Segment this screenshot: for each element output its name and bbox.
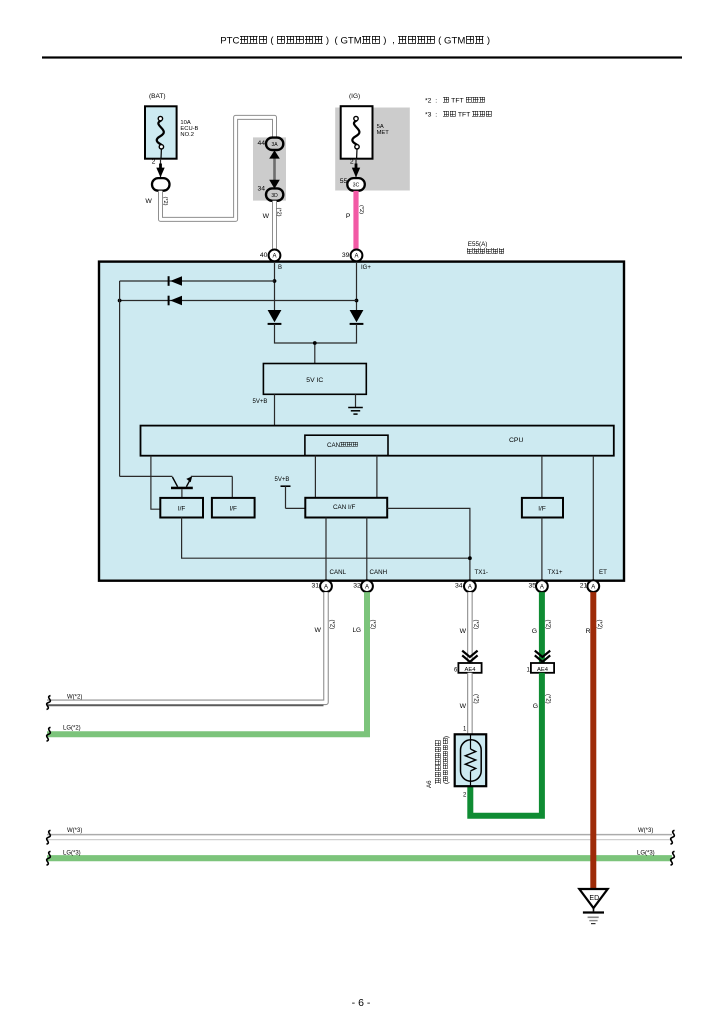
junction dot (355, 299, 359, 303)
wire label P (346, 213, 351, 220)
wire CPU to I/F3 (541, 456, 543, 498)
connector oval 3A (266, 138, 283, 150)
wire I/F3 to pin 35 (541, 518, 543, 581)
svg-text:44: 44 (257, 140, 265, 147)
wire label W(*3) right (638, 828, 653, 834)
svg-text:W: W (314, 627, 321, 634)
connector oval 3C (347, 178, 365, 191)
wire LG pin32 to LG(*2) (light green) (47, 592, 367, 734)
connector chevron AE4 pin1 (535, 651, 550, 662)
sensor designator A6 (427, 780, 433, 788)
wire note (*2) (472, 694, 478, 704)
svg-text:E55(A): E55(A) (468, 241, 488, 248)
svg-text:32: 32 (353, 583, 361, 590)
pin 21 (A) (580, 580, 599, 592)
svg-text:LG(*3): LG(*3) (63, 851, 81, 857)
CAN controller label (327, 442, 358, 449)
svg-text:40: 40 (260, 252, 268, 259)
connector oval below F1 (152, 178, 170, 191)
wire break squiggle LG(*3) right (671, 851, 675, 865)
svg-text:B: B (278, 265, 282, 271)
I/F box 2 (212, 498, 255, 518)
fuse label (BAT) (149, 94, 166, 101)
node CANL label (330, 569, 347, 576)
svg-text:(*2): (*2) (472, 620, 478, 630)
svg-text:5V+B: 5V+B (275, 477, 290, 483)
connector oval 3D (266, 188, 283, 200)
junction dot (273, 279, 277, 283)
sensor name vertical text (435, 735, 450, 783)
svg-text:(*2): (*2) (358, 205, 364, 214)
wire TX1- from CAN I/F (387, 508, 470, 580)
svg-text:1: 1 (526, 667, 530, 673)
junction dot left (118, 299, 122, 303)
diode D3 (268, 310, 282, 324)
left rail wire (119, 281, 121, 476)
svg-text:(*2): (*2) (276, 208, 282, 217)
wire pin40 down (274, 263, 276, 310)
wire note (*2) (276, 208, 282, 217)
wire fuse F1 to connector (160, 159, 162, 178)
svg-text:LG: LG (352, 627, 361, 634)
junction connector block 3A/3D (gray) (253, 137, 286, 200)
wire break squiggle W(*2) (47, 696, 51, 710)
svg-text:A: A (540, 584, 544, 590)
wire G pin35 to AE4 (green) (539, 592, 545, 663)
junction dot (313, 341, 317, 345)
node B label (278, 265, 282, 271)
svg-text:35: 35 (528, 583, 536, 590)
svg-text:TX1+: TX1+ (548, 569, 563, 576)
wire CPU to I/F1 (151, 456, 160, 510)
svg-text:(*2): (*2) (472, 694, 478, 704)
svg-text:LG(*3): LG(*3) (637, 851, 655, 857)
wire note (*2) (370, 620, 376, 630)
footer page number (0, 998, 722, 1009)
svg-text:A: A (365, 584, 369, 590)
wire label W(*3) left (67, 828, 82, 834)
connector AE4 pin6 (454, 663, 482, 673)
wire W AE4 to sensor pin1 (white) (467, 673, 473, 735)
wire CANL (controller to CAN I/F) (314, 456, 316, 498)
wire CAN I/F to pin 31 (325, 518, 327, 581)
wire W(*3) across page (white) (47, 835, 672, 838)
wire label W (460, 628, 467, 635)
node CANH label (370, 569, 388, 576)
connector label E55(A) (468, 241, 488, 248)
node ET label (599, 569, 607, 576)
wire CAN I/F to pin 32 (366, 518, 368, 581)
wire note (*2) (544, 694, 550, 704)
wire label LG (352, 627, 361, 634)
svg-text:LG(*2): LG(*2) (63, 725, 81, 731)
wire label W(*2) (67, 695, 82, 701)
wire W from BAT connector to junction connector 3A (white wire) (161, 117, 275, 219)
svg-text:A: A (324, 584, 328, 590)
svg-text:55: 55 (340, 178, 348, 185)
wire pin39 down (356, 263, 358, 310)
wire W pin34 to AE4 (white) (467, 592, 473, 663)
svg-text:CANH: CANH (370, 569, 388, 576)
svg-text:W: W (460, 628, 467, 635)
fuse value 5A MET (377, 124, 389, 136)
svg-text:ED: ED (589, 895, 599, 902)
fuse F2 box (341, 106, 373, 159)
svg-text:39: 39 (342, 252, 350, 259)
svg-text:34: 34 (257, 186, 265, 193)
node 5V+B stub (275, 477, 306, 509)
svg-text:I/F: I/F (538, 506, 546, 513)
title rule (42, 56, 682, 58)
wire label G (532, 628, 537, 635)
svg-text:P: P (346, 213, 351, 220)
pin 32 (A) (353, 580, 373, 592)
wire P (pink) from 3C to pin 39 (353, 191, 358, 250)
thermistor A6 ambient temperature sensor (455, 734, 487, 786)
I/F box 1 (160, 498, 203, 518)
svg-text:R: R (586, 628, 591, 635)
wire W from 3D to pin 40 (white) (272, 201, 277, 250)
fuse F1 10A ECU-B NO.2 (BAT) (145, 106, 177, 158)
ground under 5V IC (348, 394, 363, 414)
wire break squiggle W(*3) right (671, 830, 675, 844)
node TX1- label (475, 569, 488, 576)
svg-text:(*2): (*2) (544, 620, 550, 630)
svg-text:2: 2 (152, 158, 156, 165)
svg-text:G: G (532, 628, 537, 635)
ground ED (579, 889, 607, 924)
svg-text:(*2): (*2) (370, 620, 376, 630)
svg-text:1: 1 (463, 726, 467, 732)
sensor pin 1 label (463, 726, 467, 732)
svg-text:ET: ET (599, 569, 607, 576)
ECU name 组合仪表总成 (467, 248, 505, 256)
wire break squiggle LG(*2) (47, 727, 51, 741)
svg-text:W(*2): W(*2) (67, 695, 82, 701)
I/F box 3 (522, 498, 563, 518)
svg-text:W: W (145, 198, 152, 205)
pin 44 label (257, 140, 265, 147)
svg-text:3C: 3C (353, 183, 360, 189)
svg-text:AE4: AE4 (465, 667, 477, 673)
svg-text:I/F: I/F (229, 506, 237, 513)
svg-text:CANL: CANL (330, 569, 347, 576)
wire note (*2) (544, 620, 550, 630)
pass-through arrows 3A-3D (269, 150, 280, 189)
wire note (*2) (472, 620, 478, 630)
fuse pin 2 label (BAT) (152, 158, 156, 165)
pin 35 (A) (528, 580, 547, 592)
svg-text:CPU: CPU (509, 437, 523, 444)
svg-text:TX1-: TX1- (475, 569, 488, 576)
connector AE4 pin1 (526, 663, 554, 673)
wire R pin21 to ED ground (red) (590, 592, 596, 888)
svg-text:I/F: I/F (178, 506, 186, 513)
wire label LG(*3) left (63, 851, 81, 857)
node TX1+ label (548, 569, 563, 576)
svg-text:W: W (263, 213, 270, 220)
wire diode row 2 (120, 300, 357, 302)
svg-text:34: 34 (455, 583, 463, 590)
svg-text:6: 6 (454, 667, 458, 673)
svg-text:31: 31 (311, 583, 319, 590)
svg-text:3D: 3D (271, 193, 278, 199)
IC box 5V IC (263, 364, 366, 395)
svg-text:(*2): (*2) (162, 197, 168, 206)
fuse F2 5A MET (IG) gray block (335, 108, 410, 191)
wires diodes to 5V IC (275, 324, 357, 364)
wire label LG(*3) right (637, 851, 655, 857)
svg-text:AE4: AE4 (537, 667, 549, 673)
node 5V+B label (253, 399, 268, 405)
wire note (*2) (329, 620, 335, 630)
wire LG(*3) across page (light green) (47, 855, 672, 861)
svg-text:A: A (354, 254, 358, 260)
pin 39 (A) (342, 250, 363, 262)
svg-text:A: A (468, 584, 472, 590)
wire label W (460, 703, 467, 710)
CAN controller box (305, 435, 388, 455)
pin 55 label (340, 178, 348, 185)
wire 5V IC to CPU (274, 394, 276, 426)
sensor pin 2 label (463, 792, 467, 798)
wire G AE4 to sensor pin2 (green) (470, 673, 542, 816)
node IG+ label (361, 265, 371, 271)
wire break squiggle W(*3) left (47, 830, 51, 844)
wire W pin31 to W(*2) (white) (47, 592, 326, 705)
pin 34 label (257, 186, 265, 193)
ECU box E55(A) instrument cluster (99, 262, 624, 581)
fuse value 10A ECU-B NO.2 (180, 120, 198, 138)
connector chevron AE4 pin6 (462, 651, 477, 662)
wire note (*2) pink (358, 205, 364, 214)
wire diode row 1 (120, 280, 275, 282)
CPU box (141, 426, 614, 456)
svg-text:2: 2 (350, 158, 354, 165)
wire note (*2) BAT segment (162, 197, 168, 206)
note *3 TFT (425, 111, 492, 119)
title (0, 36, 713, 46)
pin 34 (A) (455, 580, 476, 592)
wire fuse F2 to connector (355, 159, 357, 178)
svg-text:5V+B: 5V+B (253, 399, 268, 405)
svg-text:(*2): (*2) (544, 694, 550, 704)
svg-text:W(*3): W(*3) (67, 828, 82, 834)
wire break squiggle LG(*3) left (47, 851, 51, 865)
wire label W (263, 213, 270, 220)
diode D1 (169, 276, 182, 286)
note *2 TFT (425, 97, 485, 105)
wire label G (533, 703, 538, 710)
fuse label (IG) (349, 94, 360, 101)
svg-text:(*2): (*2) (329, 620, 335, 630)
svg-text:21: 21 (580, 583, 588, 590)
pin 31 (A) (311, 580, 331, 592)
svg-text:A: A (272, 254, 276, 260)
arrow into connector (352, 164, 360, 178)
wire label W (314, 627, 321, 634)
wire label LG(*2) (63, 725, 81, 731)
fuse pin 2 label (IG) (350, 158, 354, 165)
svg-text:5V IC: 5V IC (306, 377, 323, 384)
wire note (*2) (596, 620, 602, 630)
svg-text:IG+: IG+ (361, 265, 371, 271)
svg-text:3A: 3A (272, 142, 279, 148)
wire I/F1 to TX1- line (182, 518, 470, 559)
CAN I/F box (305, 498, 387, 518)
diode D2 (169, 296, 182, 306)
arrow into connector (156, 164, 164, 178)
svg-text:(*2): (*2) (596, 620, 602, 630)
svg-text:W: W (460, 703, 467, 710)
diode D4 (350, 310, 364, 324)
wire label R (586, 628, 591, 635)
svg-text:W(*3): W(*3) (638, 828, 653, 834)
wire CANH (controller to CAN I/F) (376, 456, 378, 498)
svg-text:2: 2 (463, 792, 467, 798)
junction dot TX1- (468, 556, 472, 560)
wire ET from CPU to pin 21 (592, 456, 594, 581)
wire label W (BAT segment) (145, 198, 152, 205)
transistor Q1 (120, 476, 233, 498)
pin 40 (A) (260, 250, 281, 262)
CAN I/F label (333, 505, 355, 511)
svg-text:G: G (533, 703, 538, 710)
svg-text:A: A (591, 584, 595, 590)
